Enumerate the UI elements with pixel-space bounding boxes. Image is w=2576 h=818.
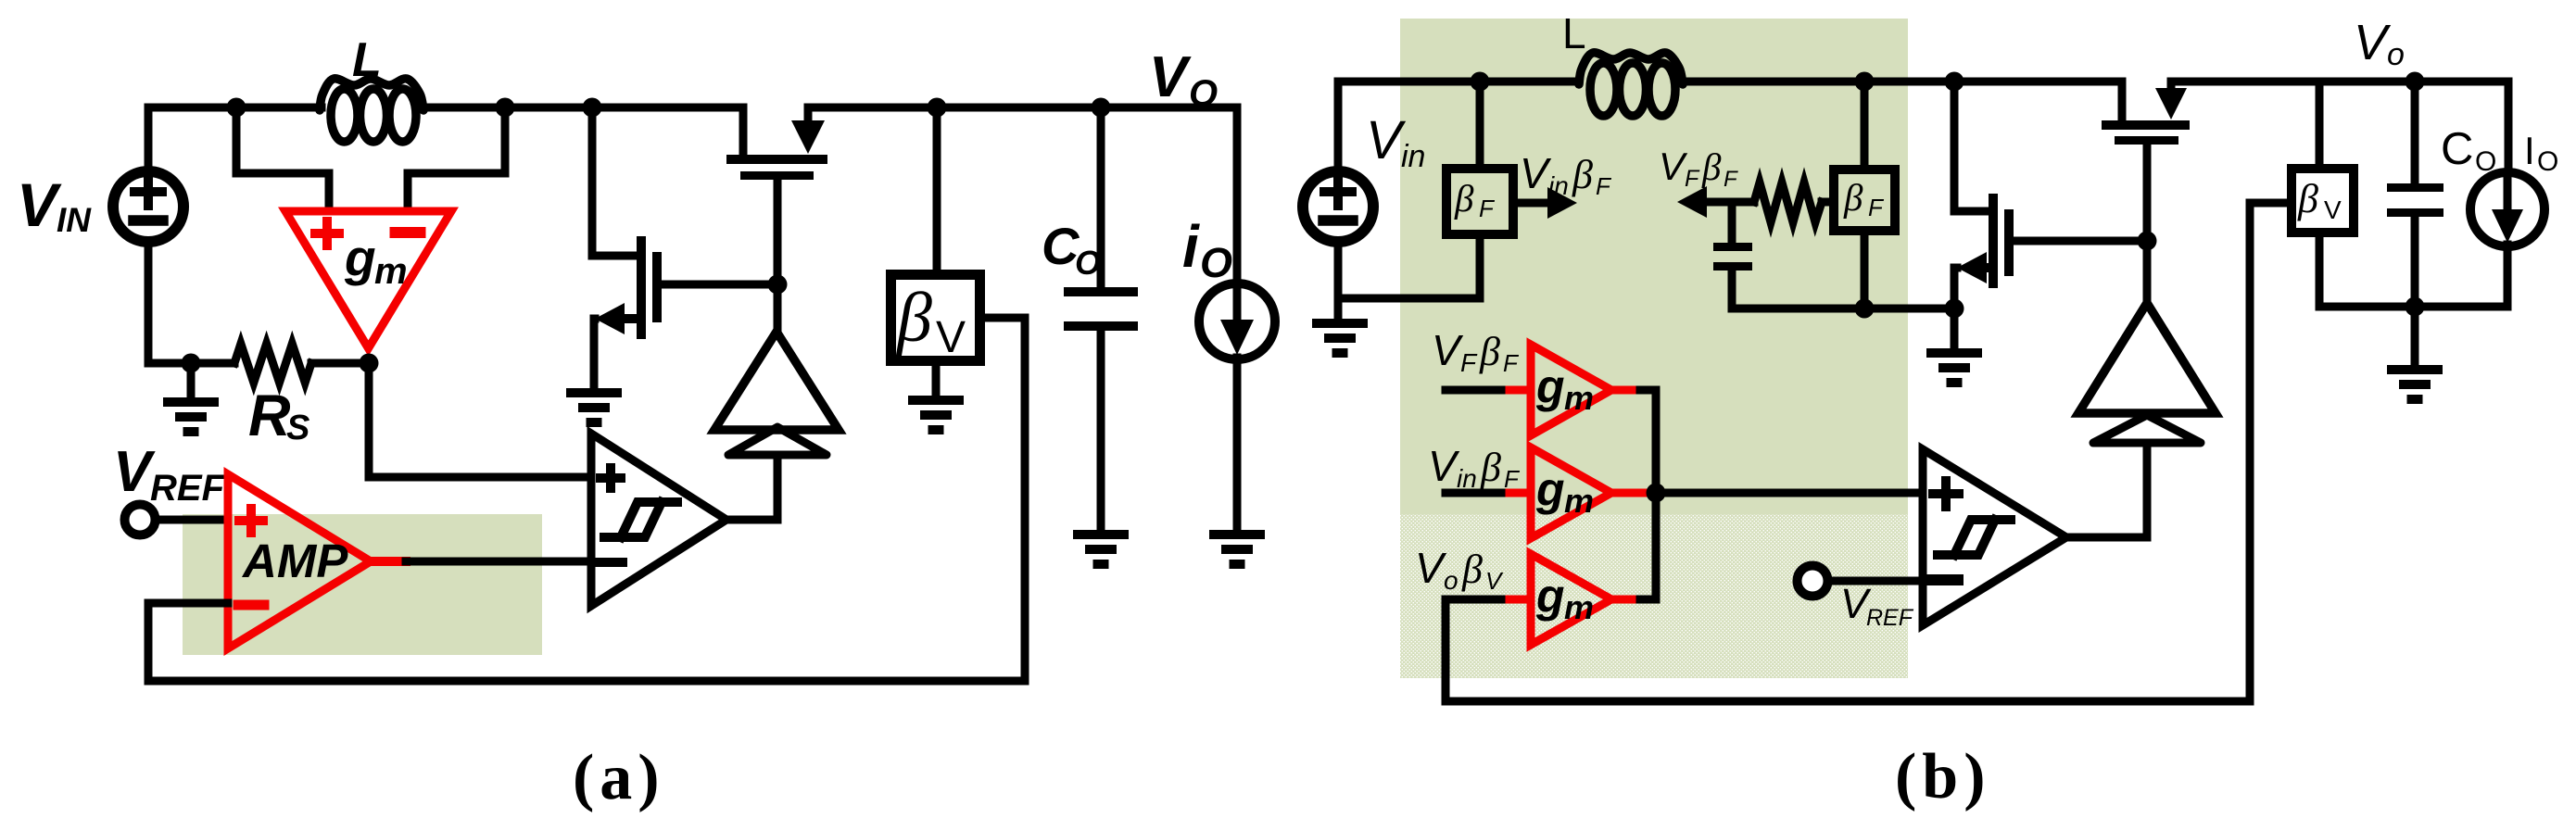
svg-text:R: R <box>248 384 291 448</box>
svg-text:V: V <box>2324 195 2342 224</box>
svg-text:F: F <box>1596 172 1612 200</box>
svg-text:F: F <box>1460 348 1478 377</box>
svg-text:O: O <box>2475 146 2496 177</box>
svg-text:REF: REF <box>1866 605 1914 631</box>
svg-text:F: F <box>1504 465 1521 493</box>
svg-text:S: S <box>286 409 309 447</box>
svg-text:β: β <box>1701 145 1722 188</box>
svg-text:V: V <box>1149 45 1192 109</box>
svg-text:V: V <box>1520 149 1552 197</box>
svg-text:β: β <box>895 279 932 357</box>
svg-text:F: F <box>1868 194 1885 221</box>
svg-text:V: V <box>2354 15 2392 70</box>
svg-text:in: in <box>1457 464 1477 493</box>
svg-text:i: i <box>1182 213 1200 280</box>
svg-text:β: β <box>1843 176 1863 219</box>
svg-text:O: O <box>2537 146 2558 177</box>
svg-text:V: V <box>1428 442 1460 490</box>
svg-text:F: F <box>1479 195 1496 222</box>
svg-text:O: O <box>1189 73 1218 114</box>
svg-text:V: V <box>1485 567 1504 595</box>
svg-text:β: β <box>2297 176 2318 221</box>
svg-text:(a): (a) <box>573 742 665 813</box>
svg-text:in: in <box>1548 171 1569 200</box>
svg-text:F: F <box>1503 349 1520 377</box>
svg-text:I: I <box>2524 129 2535 172</box>
svg-text:m: m <box>1564 482 1594 520</box>
svg-text:m: m <box>1564 379 1594 417</box>
svg-text:REF: REF <box>150 468 226 509</box>
svg-text:g: g <box>1535 360 1565 412</box>
svg-text:β: β <box>1480 445 1501 490</box>
svg-text:V: V <box>936 313 966 362</box>
svg-text:β: β <box>1461 547 1483 592</box>
svg-text:O: O <box>1200 239 1232 286</box>
svg-text:V: V <box>1415 544 1447 592</box>
svg-text:g: g <box>1535 570 1565 622</box>
svg-text:o: o <box>2387 37 2405 72</box>
svg-text:F: F <box>1685 166 1700 192</box>
svg-text:AMP: AMP <box>241 535 348 587</box>
svg-text:in: in <box>1401 139 1425 174</box>
svg-text:g: g <box>1535 463 1565 515</box>
svg-text:L: L <box>352 33 382 87</box>
svg-text:L: L <box>1562 9 1586 57</box>
svg-text:IN: IN <box>57 201 92 239</box>
svg-text:C: C <box>2441 124 2473 174</box>
svg-text:m: m <box>1564 588 1594 626</box>
svg-text:β: β <box>1479 329 1500 374</box>
svg-text:β: β <box>1454 177 1474 220</box>
svg-text:F: F <box>1724 167 1738 192</box>
svg-text:V: V <box>1432 326 1464 374</box>
svg-text:(b): (b) <box>1895 741 1991 812</box>
svg-text:O: O <box>1075 244 1101 282</box>
svg-text:β: β <box>1572 152 1593 197</box>
svg-text:o: o <box>1444 566 1458 595</box>
svg-text:m: m <box>374 251 408 292</box>
svg-text:g: g <box>344 229 376 286</box>
svg-text:V: V <box>17 170 62 239</box>
